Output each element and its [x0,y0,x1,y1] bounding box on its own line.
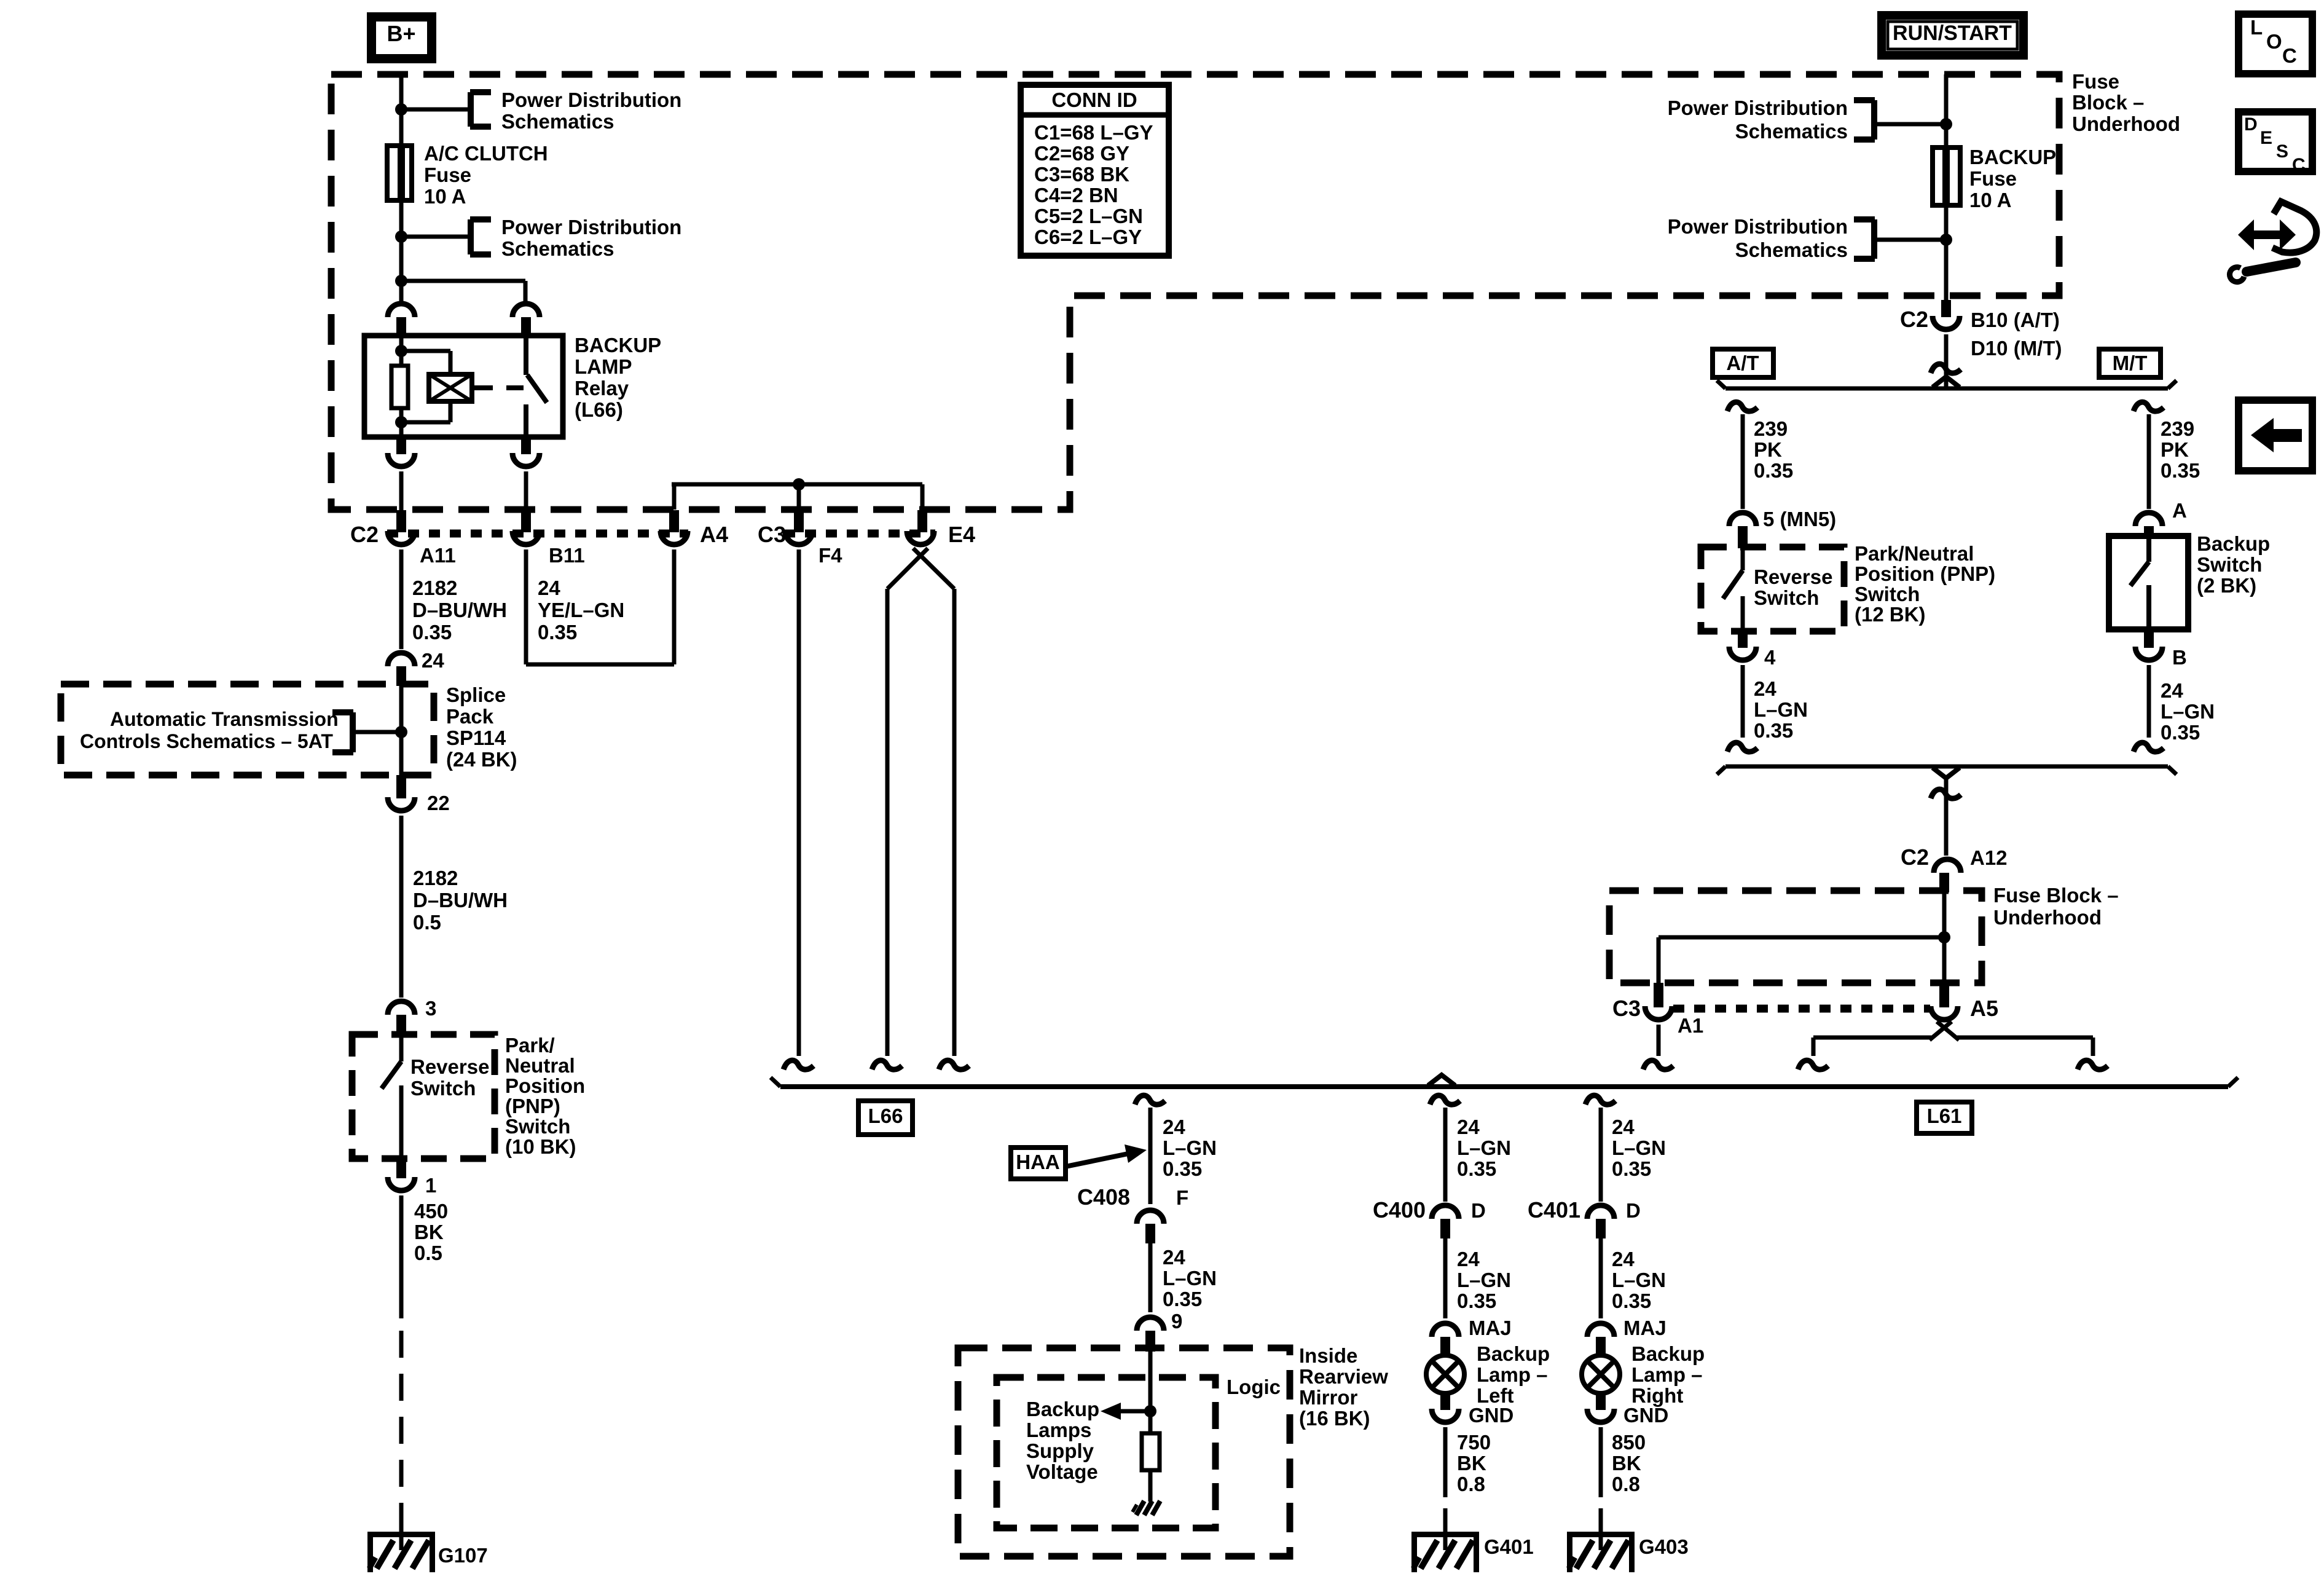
svg-text:C: C [2292,155,2306,175]
junction dot internal bus [793,478,805,490]
svg-text:Underhood: Underhood [2072,112,2180,135]
connector line lower (dotted) [1673,1005,1930,1013]
svg-text:Mirror: Mirror [1299,1386,1358,1409]
svg-text:D: D [2244,114,2258,135]
wire 750 BK [1443,1427,1448,1497]
svg-text:Supply: Supply [1026,1439,1094,1462]
label A5 [1970,996,1998,1021]
svg-text:YE/L–GN: YE/L–GN [538,599,624,621]
wire splice internal [399,686,404,775]
svg-text:24: 24 [422,649,444,672]
svg-text:0.35: 0.35 [412,621,452,644]
svg-text:2182: 2182 [412,577,457,599]
wire 239 PK M/T [2147,414,2151,509]
svg-text:Schematics: Schematics [1735,238,1848,261]
label backup switch [2197,532,2270,597]
svg-text:Pack: Pack [446,705,494,728]
connector C3 pin E4 [907,510,934,545]
wire bus L66/L61 [771,1077,2238,1087]
fuse block underhood lower dashed box [1609,891,1982,983]
label GND left [1469,1404,1513,1427]
svg-text:(24 BK): (24 BK) [446,748,517,771]
svg-text:E: E [2260,128,2272,148]
icon DESC box [2239,112,2312,175]
wire to power distribution bracket 2 [401,235,471,239]
svg-text:Position: Position [505,1074,585,1097]
svg-text:L–GN: L–GN [1612,1136,1666,1159]
svg-text:24: 24 [1457,1116,1480,1138]
svg-text:0.5: 0.5 [413,911,441,934]
junction dot splice SP114 [395,726,407,738]
wire to power distribution bracket 4 [1874,238,1946,242]
svg-text:0.35: 0.35 [1612,1157,1651,1180]
label A/C CLUTCH fuse [424,142,548,208]
wire 24 L-GN C400 lower [1443,1238,1448,1318]
label backup lamp left [1477,1342,1550,1407]
resistor in relay [391,366,408,408]
svg-text:A11: A11 [420,544,456,567]
svg-text:C3: C3 [1612,996,1641,1021]
wire 850 BK [1599,1427,1603,1497]
svg-text:C2: C2 [350,522,379,547]
svg-text:(L66): (L66) [575,398,623,421]
connector pin A [2135,513,2162,537]
CONN ID table box [1021,85,1169,256]
hook A/T branch bottom [1727,742,1757,752]
connector splice pin 24 [388,653,415,686]
svg-text:D–BU/WH: D–BU/WH [412,599,507,621]
svg-text:(PNP): (PNP) [505,1095,560,1117]
svg-text:BACKUP: BACKUP [575,334,661,356]
svg-text:BACKUP: BACKUP [1969,146,2056,168]
connector C2 pin B10 [1933,300,1960,329]
svg-text:0.35: 0.35 [1163,1157,1202,1180]
label pin 3 [425,997,436,1020]
svg-text:PK: PK [1754,438,1782,461]
node box L61 [1917,1102,1972,1133]
svg-text:Park/: Park/ [505,1034,555,1057]
svg-text:L–GN: L–GN [1163,1267,1217,1290]
wire branch to relay switch [401,281,525,301]
svg-text:0.8: 0.8 [1457,1473,1485,1495]
svg-text:239: 239 [2161,417,2194,440]
icon LOC box [2239,14,2312,74]
wire internal bus to C3 [1659,937,1944,983]
wire mirror internal [1148,1352,1153,1435]
power symbol RUN/START [1877,11,2028,60]
hook A/T branch [1727,402,1757,411]
wire relay B11 drop [524,471,528,510]
svg-text:B+: B+ [387,21,415,46]
fuse block underhood boundary (dashed) [331,74,2059,510]
svg-text:Backup: Backup [1477,1342,1550,1365]
hook HAA drop [1135,1095,1165,1105]
hook A5 right drop [2078,1060,2108,1069]
svg-text:Power Distribution: Power Distribution [501,89,681,111]
svg-text:F4: F4 [819,544,842,567]
hook A5 left drop [1798,1060,1828,1069]
svg-text:0.35: 0.35 [1754,719,1793,742]
connector bottom right of relay [512,437,540,467]
label A4 [700,522,728,547]
svg-text:D: D [1626,1199,1641,1222]
svg-text:C6=2 L–GY: C6=2 L–GY [1034,226,1142,248]
wire A5 split X [1813,1022,2093,1056]
svg-text:C2=68 GY: C2=68 GY [1034,142,1129,165]
svg-text:Backup: Backup [2197,532,2270,555]
svg-text:10 A: 10 A [1969,189,2011,211]
icon back arrow box [2239,400,2312,471]
connector top left of relay [388,304,415,336]
svg-text:Underhood: Underhood [1993,906,2102,929]
svg-text:G403: G403 [1639,1535,1689,1558]
label PNP switch left [505,1034,585,1158]
label 24 L-GN 0.35 C400 upper [1457,1116,1511,1180]
connector pin 1 [388,1159,415,1191]
svg-text:C4=2 BN: C4=2 BN [1034,184,1118,207]
wire B11 to A4 jumper [526,549,674,664]
relay coil branch wires [395,336,450,437]
svg-text:L–GN: L–GN [1754,698,1808,721]
svg-text:0.35: 0.35 [1457,1290,1496,1312]
svg-text:239: 239 [1754,417,1788,440]
junction dot rs1 [1940,118,1952,130]
wire RUN/START trunk [1944,74,1949,300]
svg-text:C: C [2282,44,2297,67]
wire internal bus A4-E4 [672,484,922,510]
svg-text:Fuse: Fuse [2072,70,2119,93]
bracket power distribution 4 [1854,219,1875,259]
svg-text:BK: BK [1457,1452,1486,1475]
wire 2182 to PNP switch [399,816,404,998]
svg-text:Power Distribution: Power Distribution [1668,215,1848,238]
svg-text:CONN ID: CONN ID [1051,89,1137,111]
connector lamp right pin GND [1587,1393,1614,1422]
svg-text:24: 24 [1163,1116,1185,1138]
label 24 YE/L-GN 0.35 [538,577,624,644]
wire 239 PK A/T [1741,414,1745,509]
ground G107 [367,1508,435,1572]
svg-text:Inside: Inside [1299,1344,1357,1367]
svg-text:0.8: 0.8 [1612,1473,1640,1495]
svg-text:(16 BK): (16 BK) [1299,1407,1370,1430]
label PNP switch right [1855,542,1995,626]
svg-text:Schematics: Schematics [501,237,614,260]
ground G403 [1567,1508,1635,1572]
svg-text:0.35: 0.35 [1754,459,1793,482]
svg-text:C400: C400 [1373,1197,1426,1223]
label A11 [420,544,456,567]
svg-text:L66: L66 [868,1105,903,1127]
label 239 PK 0.35 M/T [2161,417,2200,482]
svg-text:GND: GND [1469,1404,1513,1427]
wire resistor to ground [1148,1470,1153,1502]
hook C400 drop [1430,1095,1460,1105]
svg-text:Park/Neutral: Park/Neutral [1855,542,1974,565]
svg-text:B11: B11 [549,544,585,567]
PNP switch (12 BK) dashed box [1701,547,1844,631]
wire relay A11 drop [399,471,404,510]
connector lamp right pin MAJ [1587,1323,1614,1357]
svg-text:24: 24 [538,577,560,599]
label pin 5 (MN5) [1763,508,1836,530]
wire 24 L-GN C400 upper [1443,1108,1448,1202]
label fuse block underhood lower [1993,884,2119,929]
connector pin 9 [1137,1317,1164,1352]
svg-text:Lamps: Lamps [1026,1419,1091,1441]
connector pin 5 (MN5) [1729,513,1756,548]
svg-text:MAJ: MAJ [1469,1317,1512,1339]
label 24 L-GN 0.35 C401 upper [1612,1116,1666,1180]
arrow backup lamps supply voltage [1101,1403,1150,1420]
svg-text:Splice: Splice [446,683,506,706]
connector C401 pin D [1587,1205,1614,1238]
svg-text:24: 24 [1457,1248,1480,1270]
svg-text:A4: A4 [700,522,728,547]
label pin A [2172,499,2187,522]
reverse switch contacts right [1723,548,1743,631]
hook M/T branch bottom [2134,742,2164,752]
svg-text:B10 (A/T): B10 (A/T) [1971,309,2060,331]
label C2 A12 [1901,845,2008,870]
label 239 PK 0.35 A/T [1754,417,1793,482]
svg-text:750: 750 [1457,1431,1491,1454]
svg-text:L–GN: L–GN [1163,1136,1217,1159]
chevron lower brace [1933,768,1960,778]
svg-text:C1=68 L–GY: C1=68 L–GY [1034,121,1153,144]
svg-text:E4: E4 [948,522,975,547]
wire F4 long drop [797,549,801,1056]
label power distribution schematics 4 [1668,215,1848,261]
reverse switch contacts left [382,1036,401,1159]
junction dot 1 [395,103,407,116]
node box L66 [858,1101,913,1135]
svg-text:MAJ: MAJ [1623,1317,1666,1339]
node box HAA [1011,1148,1066,1179]
svg-text:1: 1 [425,1174,436,1197]
bracket power distribution 3 [1854,100,1875,140]
lamp backup left [1426,1355,1464,1393]
wire 24 L-GN M/T [2147,665,2151,738]
svg-text:A: A [2172,499,2187,522]
connector C2 pin A4 [661,510,688,545]
label reverse switch right [1754,565,1832,609]
wire A/T-M/T brace [1717,380,2177,388]
label G401 [1484,1535,1534,1558]
hook A1 drop [1643,1060,1673,1069]
svg-text:Neutral: Neutral [505,1054,575,1077]
wire B+ trunk [399,74,404,301]
bracket automatic transmission [332,712,353,752]
svg-text:450: 450 [414,1200,448,1223]
svg-text:A5: A5 [1970,996,1998,1021]
connector bottom left of relay [388,437,415,467]
wire B10 to brace [1944,334,1949,388]
svg-text:0.35: 0.35 [2161,721,2200,744]
svg-text:C408: C408 [1077,1184,1130,1210]
label pin 1 [425,1174,436,1197]
svg-text:24: 24 [1163,1246,1185,1269]
svg-text:Power Distribution: Power Distribution [501,216,681,238]
label inside rearview mirror [1299,1344,1388,1430]
wire to power distribution bracket 1 [401,108,471,112]
resistor logic [1142,1433,1160,1470]
label reverse switch left [410,1055,489,1100]
wire 24 L-GN C401 lower [1599,1238,1603,1318]
svg-text:L–GN: L–GN [1457,1136,1511,1159]
svg-text:0.35: 0.35 [1612,1290,1651,1312]
svg-text:A/C CLUTCH: A/C CLUTCH [424,142,548,165]
wire bracket to splice [353,730,401,734]
svg-text:D10 (M/T): D10 (M/T) [1971,337,2062,360]
svg-text:Fuse: Fuse [424,163,471,186]
svg-text:C3=68 BK: C3=68 BK [1034,163,1129,186]
svg-text:Block –: Block – [2072,91,2144,114]
svg-text:D: D [1471,1199,1486,1222]
svg-text:GND: GND [1623,1404,1668,1427]
power symbol B+ [367,12,436,63]
svg-text:0.35: 0.35 [538,621,577,644]
connector C3 pin A1 [1645,983,1672,1020]
svg-text:C5=2 L–GN: C5=2 L–GN [1034,205,1143,227]
svg-text:L–GN: L–GN [2161,700,2215,723]
svg-text:Controls Schematics – 5AT: Controls Schematics – 5AT [80,730,333,752]
label 24 L-GN 0.35 M/T [2161,679,2215,744]
relay BACKUP LAMP (L66) box [364,336,563,437]
inside rearview mirror dashed box [958,1348,1290,1556]
connector splice pin 22 [388,775,415,811]
svg-text:Schematics: Schematics [1735,120,1848,143]
label 24 L-GN 0.35 HAA upper [1163,1116,1217,1180]
label C3 [758,522,786,547]
svg-text:24: 24 [1612,1248,1635,1270]
connector C2 pin A12 [1934,859,1961,892]
junction dot lower fuse block [1938,931,1950,943]
relay coil-switch dashed link [474,385,524,390]
label 24 L-GN 0.35 C400 lower [1457,1248,1511,1312]
fuse A/C CLUTCH 10A [387,146,412,200]
wire 450 BK dashed [399,1318,404,1526]
connector line C2 (dotted) [387,530,688,538]
svg-text:C2: C2 [1901,845,1929,870]
svg-text:Reverse: Reverse [1754,565,1832,588]
relay coil symbol [429,374,472,401]
svg-text:(2 BK): (2 BK) [2197,574,2256,597]
splice pack SP114 dashed box [61,684,434,775]
svg-text:(12 BK): (12 BK) [1855,603,1926,626]
icon jump arrow [2229,202,2316,282]
svg-text:5 (MN5): 5 (MN5) [1763,508,1836,530]
hook F4 drop [783,1060,814,1069]
relay switch contact [526,336,547,437]
arrow HAA to wire [1066,1144,1147,1167]
svg-text:L–GN: L–GN [1457,1269,1511,1291]
svg-text:A/T: A/T [1726,352,1759,374]
svg-text:M/T: M/T [2113,352,2148,374]
label power distribution schematics 1 [501,89,681,133]
connector lamp left pin GND [1432,1393,1459,1422]
connector pin 4 [1729,631,1756,660]
label C408 F [1077,1184,1188,1210]
svg-text:RUN/START: RUN/START [1893,22,2012,45]
label G107 [438,1544,488,1567]
bracket power distribution 2 [470,219,491,254]
svg-text:Switch: Switch [410,1077,476,1100]
svg-text:Rearview: Rearview [1299,1365,1388,1388]
svg-text:Logic: Logic [1227,1376,1281,1398]
connector C408 pin F [1137,1210,1164,1243]
svg-text:Schematics: Schematics [501,110,614,133]
svg-text:Backup: Backup [1631,1342,1705,1365]
connector C400 pin D [1432,1205,1459,1238]
label 24 L-GN 0.35 C401 lower [1612,1248,1666,1312]
svg-text:S: S [2276,141,2288,162]
wire A1 drop [1657,1025,1661,1056]
chevron bus break [1428,1075,1455,1085]
label MAJ left [1469,1317,1512,1339]
label 450 BK 0.5 [414,1200,448,1264]
svg-text:A1: A1 [1678,1014,1703,1037]
svg-text:2182: 2182 [413,867,458,889]
lamp backup right [1582,1355,1620,1393]
svg-text:G107: G107 [438,1544,488,1567]
label backup lamp right [1631,1342,1705,1407]
label 2182 D-BU/WH 0.35 [412,577,507,644]
svg-text:Power Distribution: Power Distribution [1668,96,1848,119]
label automatic transmission controls [80,708,339,752]
svg-text:O: O [2266,30,2282,53]
wire A12 internal [1942,892,1947,983]
svg-text:C2: C2 [1900,307,1928,332]
svg-text:3: 3 [425,997,436,1020]
label pin B [2172,646,2187,669]
label C400 D [1373,1197,1486,1223]
svg-text:24: 24 [1612,1116,1635,1138]
hook E4 left drop [872,1060,902,1069]
label BACKUP LAMP Relay (L66) [575,334,661,421]
label B11 [549,544,585,567]
label G403 [1639,1535,1689,1558]
bracket power distribution 1 [470,92,491,127]
label BACKUP fuse [1969,146,2056,211]
wire 450 BK [399,1195,404,1318]
wire brace to A12 [1944,776,1949,856]
svg-text:Reverse: Reverse [410,1055,489,1078]
svg-text:A12: A12 [1970,846,2008,869]
label 750 BK 0.8 [1457,1431,1491,1495]
svg-text:Switch: Switch [1754,586,1819,609]
node box A/T [1713,349,1773,377]
wire 24 L-GN HAA upper [1148,1108,1153,1204]
wire A/T-M/T lower brace [1717,766,2177,774]
chevron brace feed [1933,377,1960,387]
label pin 4 [1764,646,1776,669]
svg-text:0.35: 0.35 [1457,1157,1496,1180]
label MAJ right [1623,1317,1666,1339]
label pin 22 [427,792,450,814]
svg-text:G401: G401 [1484,1535,1534,1558]
connector pin B [2135,629,2162,660]
logic dashed box [997,1377,1215,1528]
connector C3 pin F4 [785,510,812,545]
hook E4 right drop [939,1060,969,1069]
svg-text:F: F [1176,1186,1188,1209]
connector line C3 (dotted) [784,530,935,538]
label F4 [819,544,842,567]
svg-text:BK: BK [414,1221,444,1243]
label logic [1227,1376,1281,1398]
svg-text:Switch: Switch [1855,583,1920,605]
